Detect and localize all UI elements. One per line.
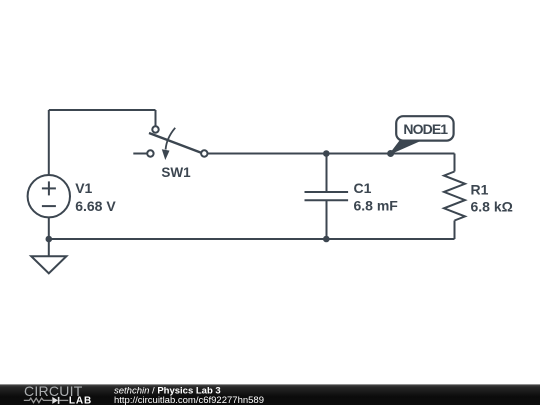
switch SW1	[147, 126, 207, 160]
wire rail to ground	[48, 239, 50, 256]
footer bar	[0, 384, 540, 405]
junction dot V1 bottom rail	[46, 236, 53, 243]
junction dot capacitor bottom	[323, 236, 330, 243]
switch throw-2 terminal circle	[147, 150, 153, 156]
wire right vertical to resistor top	[454, 154, 456, 172]
svg-text:http://circuitlab.com/c6f92277: http://circuitlab.com/c6f92277hn589	[114, 395, 264, 405]
switch actuation arrow arc	[166, 128, 176, 150]
svg-text:6.8 mF: 6.8 mF	[354, 197, 399, 213]
node NODE1 dot	[387, 150, 394, 157]
svg-text:SW1: SW1	[161, 165, 191, 180]
svg-text:LAB: LAB	[69, 396, 92, 405]
svg-text:NODE1: NODE1	[403, 121, 448, 137]
wire capacitor bottom branch	[326, 200, 328, 239]
wire switch throw 2 stub	[133, 153, 147, 155]
svg-text:V1: V1	[75, 180, 92, 196]
voltage source V1	[28, 175, 70, 217]
svg-text:6.8 kΩ: 6.8 kΩ	[471, 199, 513, 215]
ground	[31, 256, 66, 273]
switch blade	[149, 133, 202, 153]
svg-text:C1: C1	[354, 180, 372, 196]
switch throw-1 terminal circle	[152, 126, 158, 132]
wire top-left vertical from V1 up	[48, 110, 50, 175]
junction dot capacitor top	[323, 150, 330, 157]
node NODE1 callout box	[396, 116, 453, 140]
wire switch common to node row	[208, 153, 455, 155]
footer logo mini diode	[52, 397, 58, 404]
wire top horizontal	[49, 109, 156, 111]
wire bottom rail	[49, 238, 455, 240]
wire V1 bottom to rail	[48, 217, 50, 239]
svg-text:R1: R1	[471, 181, 489, 197]
resistor R1	[444, 172, 465, 221]
svg-text:6.68 V: 6.68 V	[75, 198, 116, 214]
node NODE1 callout tail	[391, 141, 420, 154]
wire capacitor top branch	[326, 154, 328, 193]
wire down to switch throw 1	[155, 110, 157, 126]
switch arrowhead	[162, 149, 170, 160]
wire resistor bottom to bottom rail	[454, 221, 456, 240]
switch common terminal circle	[201, 150, 207, 156]
footer logo mini resistor zigzag	[24, 398, 52, 402]
capacitor C1	[305, 192, 349, 200]
